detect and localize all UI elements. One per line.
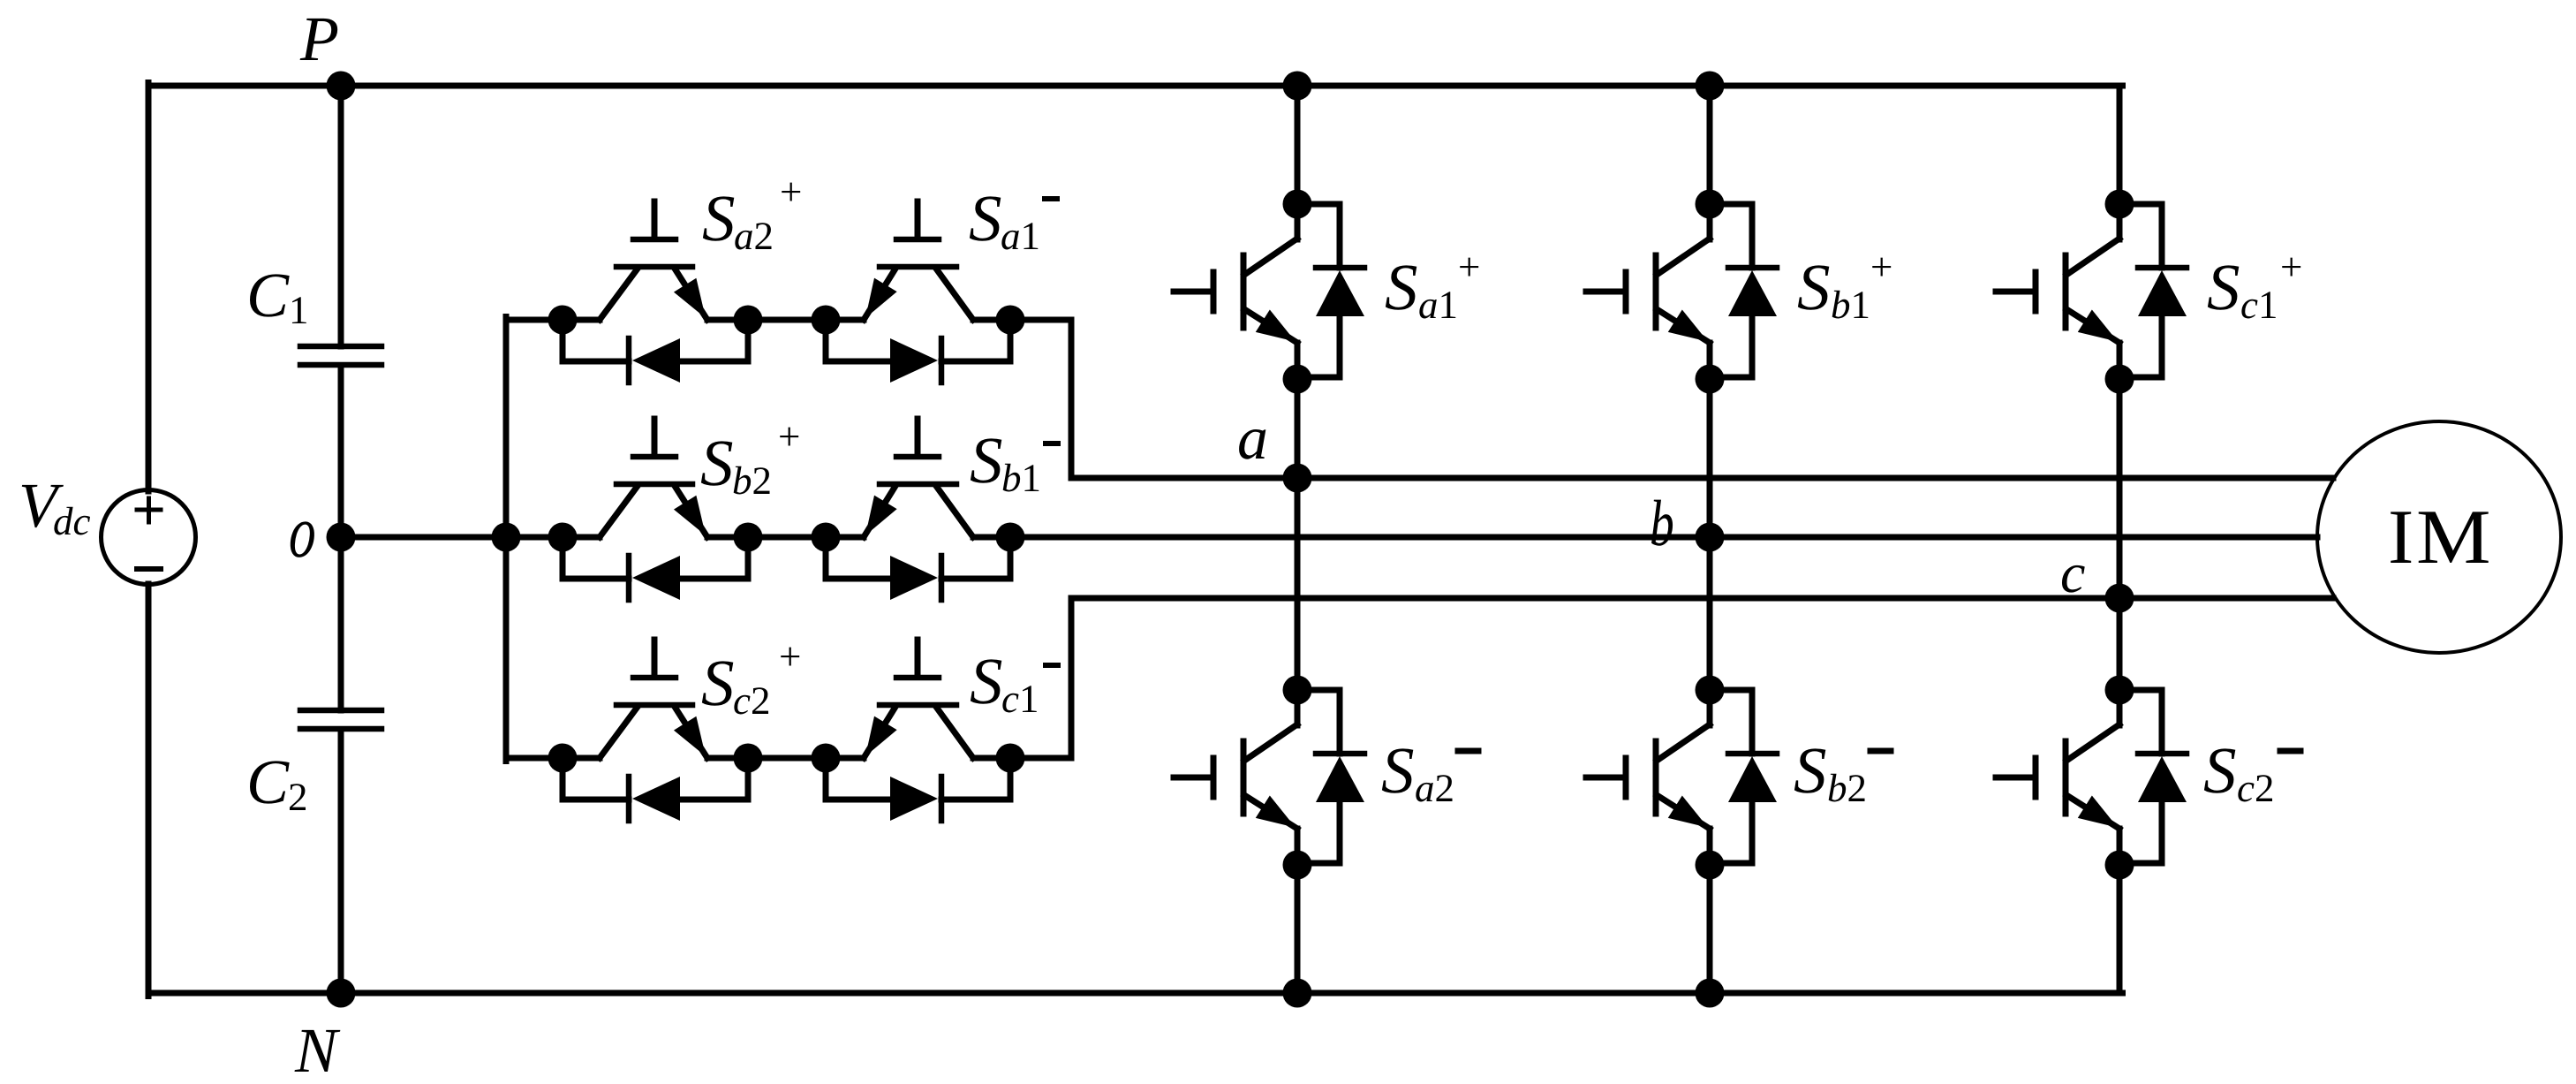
wire o to clamp bus (341, 534, 563, 541)
wire row b to IM (phase b) (1010, 534, 2317, 541)
svg-text:S: S (1381, 734, 1415, 807)
diode Db2 (antiparallel, clamp left) (563, 537, 748, 600)
svg-text:S: S (970, 424, 1003, 497)
svg-text:c2: c2 (2237, 766, 2274, 810)
junction Sb1+ emitter (1696, 365, 1725, 394)
svg-text:S: S (2203, 734, 2237, 807)
junction c row dot3 (812, 744, 841, 773)
junction Sc2- collector (2105, 676, 2134, 705)
node b phase (1696, 523, 1725, 552)
diode Sa1+ freewheeling (1297, 204, 1364, 377)
capacitor C1 (300, 346, 381, 365)
junction clamp bus / o (492, 523, 521, 552)
junction Sa2- emitter (1283, 851, 1312, 880)
svg-text:M: M (2416, 495, 2491, 580)
diode Da2 (antiparallel, clamp left) (563, 320, 748, 383)
junction Sc1+ collector (2105, 190, 2134, 219)
node o (327, 523, 356, 552)
wire a row mid (707, 317, 826, 323)
label Sb2+ (700, 414, 800, 503)
diode Sa2- freewheeling (1297, 690, 1364, 863)
svg-text:c1: c1 (2240, 283, 2278, 327)
wire row c left (506, 755, 600, 762)
wire leg b middle (1707, 379, 1713, 690)
wire bottom rail N (148, 990, 2123, 997)
wire row b left (506, 534, 600, 541)
transistor Sb1- (IGBT, clamp right) (826, 419, 1010, 537)
wire left vertical (Vdc to rails) (146, 83, 152, 997)
svg-text:c2: c2 (733, 678, 770, 723)
label Sa1- (969, 182, 1057, 258)
junction Sa2- collector (1283, 676, 1312, 705)
diode Sc1+ freewheeling (2119, 204, 2187, 377)
svg-text:a1: a1 (1001, 214, 1040, 258)
wire leg b upper (1707, 86, 1713, 204)
node c phase (2105, 584, 2134, 613)
junction leg b / N rail (1696, 979, 1725, 1008)
transistor Sb2+ (IGBT, clamp left) (600, 419, 707, 537)
junction leg a / N rail (1283, 979, 1312, 1008)
svg-text:b1: b1 (1001, 456, 1041, 500)
svg-text:1: 1 (289, 288, 309, 332)
svg-text:N: N (294, 1015, 341, 1084)
node a phase (1283, 464, 1312, 493)
svg-text:c: c (2060, 542, 2085, 604)
label Sc2- (2203, 734, 2300, 810)
label Sa1+ (1385, 245, 1480, 327)
svg-text:S: S (1385, 251, 1418, 324)
svg-text:S: S (1797, 251, 1831, 324)
diode Da1 (antiparallel, clamp right) (826, 320, 1010, 383)
label Sc2+ (701, 634, 801, 723)
svg-text:b1: b1 (1831, 283, 1870, 327)
label Sa2+ (702, 170, 802, 258)
junction b row dot2 (734, 523, 763, 552)
svg-text:b2: b2 (1827, 766, 1867, 810)
label a (1237, 405, 1268, 473)
svg-text:S: S (969, 182, 1002, 255)
transistor Sa2- (IGBT) (1174, 690, 1297, 865)
wire leg a middle (1295, 379, 1301, 690)
svg-text:b: b (1650, 488, 1674, 560)
wire c row mid (707, 755, 826, 762)
svg-text:2: 2 (288, 775, 308, 819)
svg-text:S: S (702, 182, 736, 255)
node N (327, 979, 356, 1008)
junction b row dot4 (996, 523, 1025, 552)
svg-text:S: S (1794, 734, 1827, 807)
svg-text:c1: c1 (1001, 677, 1039, 721)
wire row a left (506, 317, 600, 323)
svg-text:+: + (1458, 245, 1480, 289)
transistor Sa1- (IGBT, clamp right) (826, 201, 1010, 320)
svg-text:P: P (299, 4, 339, 74)
wire leg c lower (2117, 865, 2123, 993)
diode Sb2- freewheeling (1710, 690, 1777, 863)
transistor Sc1+ (IGBT) (1996, 204, 2119, 379)
label b (1650, 488, 1674, 560)
svg-text:+: + (1870, 245, 1892, 289)
svg-text:a: a (1237, 405, 1268, 473)
diode Dc1 (antiparallel, clamp right) (826, 758, 1010, 821)
transistor Sc2- (IGBT) (1996, 690, 2119, 865)
svg-text:a2: a2 (734, 214, 774, 258)
wire leg b lower (1707, 865, 1713, 993)
junction Sa1+ collector (1283, 190, 1312, 219)
wire row a to node a (1010, 320, 2333, 478)
wire leg a upper (1295, 86, 1301, 204)
svg-text:C: C (246, 260, 290, 330)
svg-text:+: + (778, 414, 800, 459)
wire leg c upper (2117, 86, 2123, 204)
diode Dc2 (antiparallel, clamp left) (563, 758, 748, 821)
diode Sc2- freewheeling (2119, 690, 2187, 863)
junction c row dot1 (548, 744, 578, 773)
svg-text:a1: a1 (1418, 283, 1458, 327)
label P (299, 4, 339, 74)
junction c row dot2 (734, 744, 763, 773)
junction Sc1+ emitter (2105, 365, 2134, 394)
svg-text:C: C (246, 747, 290, 817)
junction b row dot1 (548, 523, 578, 552)
svg-text:S: S (2207, 251, 2240, 324)
wire top rail P (148, 83, 2123, 89)
label c (2060, 542, 2085, 604)
wire b row mid (707, 534, 826, 541)
label Sc1+ (2207, 245, 2302, 327)
label o (287, 491, 318, 573)
junction Sb2- emitter (1696, 851, 1725, 880)
voltage source Vdc (102, 490, 196, 585)
junction leg b / P rail (1696, 72, 1725, 101)
junction Sa1+ emitter (1283, 365, 1312, 394)
junction c row dot4 (996, 744, 1025, 773)
node P (327, 72, 356, 101)
wire row c to node c (1010, 598, 2333, 758)
svg-text:a2: a2 (1415, 766, 1454, 810)
transistor Sb1+ (IGBT) (1586, 204, 1710, 379)
junction leg a / P rail (1283, 72, 1312, 101)
transistor Sa1+ (IGBT) (1174, 204, 1297, 379)
junction a row dot1 (548, 306, 578, 335)
wire leg c middle (2117, 379, 2123, 690)
svg-text:I: I (2388, 495, 2414, 580)
capacitor C2 (300, 710, 381, 729)
junction a row dot4 (996, 306, 1025, 335)
label Sb1- (970, 424, 1058, 500)
diode Sb1+ freewheeling (1710, 204, 1777, 377)
label N (294, 1015, 341, 1084)
svg-text:S: S (701, 647, 735, 720)
svg-text:dc: dc (53, 499, 91, 543)
transistor Sa2+ (IGBT, clamp left) (600, 201, 707, 320)
junction a row dot3 (812, 306, 841, 335)
label Vdc (19, 470, 91, 543)
label Sb1+ (1797, 245, 1892, 327)
label Sc1- (970, 645, 1058, 721)
junction b row dot3 (812, 523, 841, 552)
junction Sb2- collector (1696, 676, 1725, 705)
wire DC-link bus vertical (338, 86, 344, 993)
label C1 (246, 260, 309, 332)
transistor Sb2- (IGBT) (1586, 690, 1710, 865)
junction Sb1+ collector (1696, 190, 1725, 219)
svg-text:S: S (700, 427, 734, 500)
junction Sc2- emitter (2105, 851, 2134, 880)
svg-text:S: S (970, 645, 1003, 718)
label C2 (246, 747, 308, 819)
transistor Sc2+ (IGBT, clamp left) (600, 640, 707, 758)
svg-text:+: + (779, 634, 801, 678)
diode Db1 (antiparallel, clamp right) (826, 537, 1010, 600)
wire clamp bus vertical (503, 317, 510, 762)
svg-text:+: + (2280, 245, 2302, 289)
label Sa2- (1381, 734, 1478, 810)
svg-text:+: + (780, 170, 802, 214)
label Sb2- (1794, 734, 1891, 810)
junction a row dot2 (734, 306, 763, 335)
svg-text:o: o (287, 491, 318, 573)
transistor Sc1- (IGBT, clamp right) (826, 640, 1010, 758)
wire leg a lower (1295, 865, 1301, 993)
svg-text:b2: b2 (732, 459, 772, 503)
motor IM (2317, 421, 2561, 653)
